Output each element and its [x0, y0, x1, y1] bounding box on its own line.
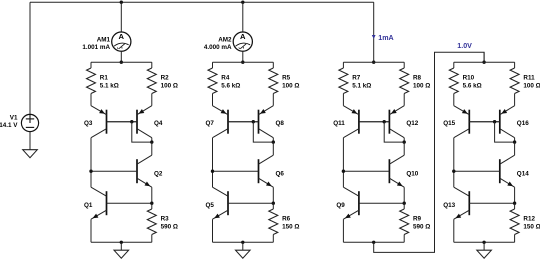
label R7	[352, 75, 361, 82]
junction dot mirror rail block 2	[241, 61, 244, 64]
junction dot collector node block 3	[403, 140, 406, 143]
wire 1.0V node into block 4	[483, 52, 485, 62]
value label 100 &#937;	[523, 82, 540, 89]
svg-text:14.1 V: 14.1 V	[0, 122, 18, 129]
wire Q6 emitter down block 2	[272, 187, 274, 203]
transistor Q7 (PNP)	[213, 106, 259, 138]
transistor Q16 (PNP)	[469, 106, 514, 138]
wire Q4 collector down block 1	[151, 138, 153, 142]
label Q14	[517, 171, 529, 178]
svg-text:1.001 mA: 1.001 mA	[82, 44, 110, 51]
wire base tap to collector node block 2	[253, 122, 273, 142]
label Q7	[205, 120, 214, 127]
junction dot base tap block 4	[493, 120, 496, 123]
label R12	[523, 216, 535, 223]
wire left vertical (Q11 collector to Q9) block 3	[342, 138, 344, 188]
value label 5.6 k&#937;	[221, 82, 240, 89]
svg-text:Q4: Q4	[154, 120, 163, 127]
label R8	[413, 75, 422, 82]
wire Q13 emitter down block 4	[453, 219, 455, 242]
svg-text:4.000 mA: 4.000 mA	[204, 44, 232, 51]
wire Q1 emitter down block 1	[90, 219, 92, 242]
resistor R9	[400, 203, 409, 242]
svg-text:Q7: Q7	[205, 120, 214, 127]
svg-text:R6: R6	[282, 216, 291, 223]
svg-text:590 Ω: 590 Ω	[413, 224, 430, 231]
label R3	[161, 216, 170, 223]
svg-text:R2: R2	[161, 75, 170, 82]
svg-text:Q3: Q3	[84, 120, 93, 127]
svg-text:100 Ω: 100 Ω	[413, 82, 430, 89]
wire Q12 collector down block 3	[403, 138, 405, 142]
svg-text:V1: V1	[10, 114, 18, 121]
wire Q16 collector down block 4	[514, 138, 516, 142]
junction dot base tap block 2	[252, 120, 255, 123]
junction dot emitter/base/R6 node block 2	[272, 202, 275, 205]
transistor Q5 (NPN)	[213, 187, 274, 219]
wire ammeter to mirror rail block 1	[120, 51, 122, 62]
junction dot bottom rail block 1	[120, 241, 123, 244]
label 1mA (blue)	[378, 34, 393, 42]
svg-text:100 Ω: 100 Ω	[161, 82, 178, 89]
junction dot bottom rail block 2	[241, 241, 244, 244]
resistor R7	[339, 62, 348, 105]
svg-text:Q11: Q11	[333, 120, 345, 127]
junction dot mirror rail block 4	[482, 61, 485, 64]
wire rail to ammeter AM2	[242, 2, 244, 32]
ground (block 1)	[114, 250, 129, 258]
label R9	[413, 216, 422, 223]
label Q15	[443, 120, 455, 127]
ammeter AM1	[112, 32, 131, 51]
junction dot Q10 base on left vertical block 3	[342, 170, 345, 173]
svg-text:Q9: Q9	[336, 202, 345, 209]
svg-text:Q6: Q6	[276, 171, 285, 178]
svg-text:R3: R3	[161, 216, 170, 223]
label Q16	[517, 120, 529, 127]
svg-text:150 Ω: 150 Ω	[282, 224, 299, 231]
ground (block 2)	[236, 250, 251, 258]
label Q10	[406, 171, 418, 178]
label Q5	[205, 202, 214, 209]
wire bottom rail block 3	[343, 241, 404, 243]
voltage source V1	[21, 114, 38, 131]
value label 100 &#937;	[282, 82, 299, 89]
label Q12	[406, 120, 418, 127]
value label 14.1 V	[0, 122, 18, 129]
label Q1	[84, 202, 93, 209]
wire mirror rail block 2	[213, 61, 274, 63]
label Q9	[336, 202, 345, 209]
svg-text:Q10: Q10	[406, 171, 418, 178]
label R4	[221, 75, 230, 82]
svg-text:Q1: Q1	[84, 202, 93, 209]
wire block 3 output to 1.0V node	[374, 52, 484, 252]
svg-text:5.1 kΩ: 5.1 kΩ	[100, 82, 119, 89]
svg-text:5.1 kΩ: 5.1 kΩ	[352, 82, 371, 89]
svg-text:150 Ω: 150 Ω	[523, 224, 540, 231]
label Q4	[154, 120, 163, 127]
svg-text:Q14: Q14	[517, 171, 529, 178]
svg-text:AM1: AM1	[97, 36, 111, 43]
svg-text:R7: R7	[352, 75, 361, 82]
resistor R4	[208, 62, 217, 105]
junction dot mirror rail block 3	[372, 61, 375, 64]
junction dot emitter/base/R12 node block 4	[513, 202, 516, 205]
junction dot top rail block 1	[120, 1, 123, 4]
wire rail to ammeter AM1	[120, 2, 122, 32]
label R6	[282, 216, 291, 223]
resistor R2	[147, 62, 156, 105]
junction dot collector node block 4	[513, 140, 516, 143]
transistor Q14 (NPN)	[454, 155, 515, 187]
junction dot base tap block 3	[383, 120, 386, 123]
junction dot mirror rail block 1	[120, 61, 123, 64]
label Q8	[276, 120, 285, 127]
value label 4.000 mA	[204, 44, 232, 51]
wire Q8 collector down block 2	[272, 138, 274, 142]
junction dot Q6 base on left vertical block 2	[211, 170, 214, 173]
label V1	[10, 114, 18, 121]
wire mirror rail block 3	[343, 61, 404, 63]
wire left vertical (Q15 collector to Q13) block 4	[453, 138, 455, 188]
resistor R8	[400, 62, 409, 105]
wire base tap to collector node block 1	[132, 122, 152, 142]
svg-text:Q2: Q2	[154, 171, 163, 178]
ground (V1)	[23, 150, 38, 158]
wire V1 riser	[29, 2, 31, 114]
svg-text:R9: R9	[413, 216, 422, 223]
transistor Q2 (NPN)	[91, 155, 152, 187]
wire bottom rail block 4	[454, 241, 515, 243]
value label 5.1 k&#937;	[100, 82, 119, 89]
value label 5.6 k&#937;	[463, 82, 482, 89]
wire ammeter to mirror rail block 2	[242, 51, 244, 62]
transistor Q10 (NPN)	[343, 155, 404, 187]
junction dot emitter/base/R3 node block 1	[150, 202, 153, 205]
wire Q9 emitter down block 3	[342, 219, 344, 242]
resistor R5	[269, 62, 278, 105]
label AM1	[97, 36, 111, 43]
svg-text:Q12: Q12	[406, 120, 418, 127]
svg-text:R5: R5	[282, 75, 291, 82]
resistor R1	[87, 62, 96, 105]
value label 590 &#937;	[413, 224, 430, 231]
value label 150 &#937;	[282, 224, 299, 231]
wire mirror rail block 4	[454, 61, 515, 63]
svg-text:A: A	[240, 32, 246, 41]
svg-text:AM2: AM2	[218, 36, 232, 43]
value label 150 &#937;	[523, 224, 540, 231]
value label 590 &#937;	[161, 224, 178, 231]
value label 100 &#937;	[413, 82, 430, 89]
svg-text:100 Ω: 100 Ω	[523, 82, 540, 89]
svg-text:Q5: Q5	[205, 202, 214, 209]
wire bottom rail block 1	[91, 241, 152, 243]
label Q2	[154, 171, 163, 178]
svg-text:R4: R4	[221, 75, 230, 82]
wire collector node to Q6 block 2	[272, 142, 274, 155]
transistor Q8 (PNP)	[228, 106, 273, 138]
ammeter AM2	[233, 32, 252, 51]
wire left vertical (Q7 collector to Q5) block 2	[212, 138, 214, 188]
wire collector node to Q2 block 1	[151, 142, 153, 155]
wire base tap to collector node block 4	[495, 122, 515, 142]
wire Q14 emitter down block 4	[514, 187, 516, 203]
transistor Q4 (PNP)	[107, 106, 152, 138]
label R5	[282, 75, 291, 82]
junction dot collector node block 1	[150, 140, 153, 143]
resistor R6	[269, 203, 278, 242]
svg-text:Q16: Q16	[517, 120, 529, 127]
transistor Q9 (NPN)	[343, 187, 404, 219]
svg-text:1mA: 1mA	[378, 34, 393, 42]
svg-text:590 Ω: 590 Ω	[161, 224, 178, 231]
wire ground stub block 1	[120, 242, 122, 250]
wire left vertical (Q3 collector to Q1) block 1	[90, 138, 92, 188]
resistor R10	[449, 62, 458, 105]
svg-text:A: A	[119, 32, 125, 41]
wire rail corner down to block 3	[373, 2, 375, 62]
wire collector node to Q10 block 3	[403, 142, 405, 155]
transistor Q12 (PNP)	[359, 106, 404, 138]
transistor Q15 (PNP)	[454, 106, 500, 138]
svg-text:5.6 kΩ: 5.6 kΩ	[221, 82, 240, 89]
label R11	[523, 75, 535, 82]
junction dot bottom rail block 4	[482, 241, 485, 244]
wire Q5 emitter down block 2	[212, 219, 214, 242]
resistor R3	[147, 203, 156, 242]
junction dot top rail block 2	[241, 1, 244, 4]
value label 1.001 mA	[82, 44, 110, 51]
svg-text:R12: R12	[523, 216, 535, 223]
label R2	[161, 75, 170, 82]
svg-text:100 Ω: 100 Ω	[282, 82, 299, 89]
label Q3	[84, 120, 93, 127]
transistor Q11 (PNP)	[343, 106, 389, 138]
value label 100 &#937;	[161, 82, 178, 89]
svg-text:Q13: Q13	[443, 202, 455, 209]
wire mirror rail block 1	[91, 61, 152, 63]
transistor Q13 (NPN)	[454, 187, 515, 219]
wire ground stub block 4	[483, 242, 485, 250]
wire base tap to collector node block 3	[384, 122, 404, 142]
label Q13	[443, 202, 455, 209]
label Q11	[333, 120, 345, 127]
svg-text:Q8: Q8	[276, 120, 285, 127]
svg-text:Q15: Q15	[443, 120, 455, 127]
junction dot collector node block 2	[272, 140, 275, 143]
svg-text:R10: R10	[463, 75, 475, 82]
junction dot base tap block 1	[130, 120, 133, 123]
svg-text:1.0V: 1.0V	[457, 42, 472, 50]
value label 5.1 k&#937;	[352, 82, 371, 89]
transistor Q1 (NPN)	[91, 187, 152, 219]
svg-text:5.6 kΩ: 5.6 kΩ	[463, 82, 482, 89]
current probe arrow (blue)	[372, 35, 376, 39]
junction dot Q14 base on left vertical block 4	[452, 170, 455, 173]
resistor R11	[510, 62, 519, 105]
transistor Q6 (NPN)	[213, 155, 274, 187]
svg-text:R11: R11	[523, 75, 535, 82]
label AM2	[218, 36, 232, 43]
wire V1 to ground	[29, 132, 31, 150]
svg-text:R8: R8	[413, 75, 422, 82]
label 1.0V (blue)	[457, 42, 472, 50]
wire top rail (V+ net)	[30, 1, 374, 3]
svg-text:R1: R1	[100, 75, 109, 82]
resistor R12	[510, 203, 519, 242]
wire collector node to Q14 block 4	[514, 142, 516, 155]
junction dot bottom rail block 3	[372, 241, 375, 244]
label Q6	[276, 171, 285, 178]
label R1	[100, 75, 109, 82]
wire Q2 emitter down block 1	[151, 187, 153, 203]
junction dot Q2 base on left vertical block 1	[89, 170, 92, 173]
wire bottom rail block 2	[213, 241, 274, 243]
wire Q10 emitter down block 3	[403, 187, 405, 203]
junction dot emitter/base/R9 node block 3	[403, 202, 406, 205]
transistor Q3 (PNP)	[91, 106, 137, 138]
ground (block 4)	[477, 250, 492, 258]
label R10	[463, 75, 475, 82]
wire ground stub block 2	[242, 242, 244, 250]
